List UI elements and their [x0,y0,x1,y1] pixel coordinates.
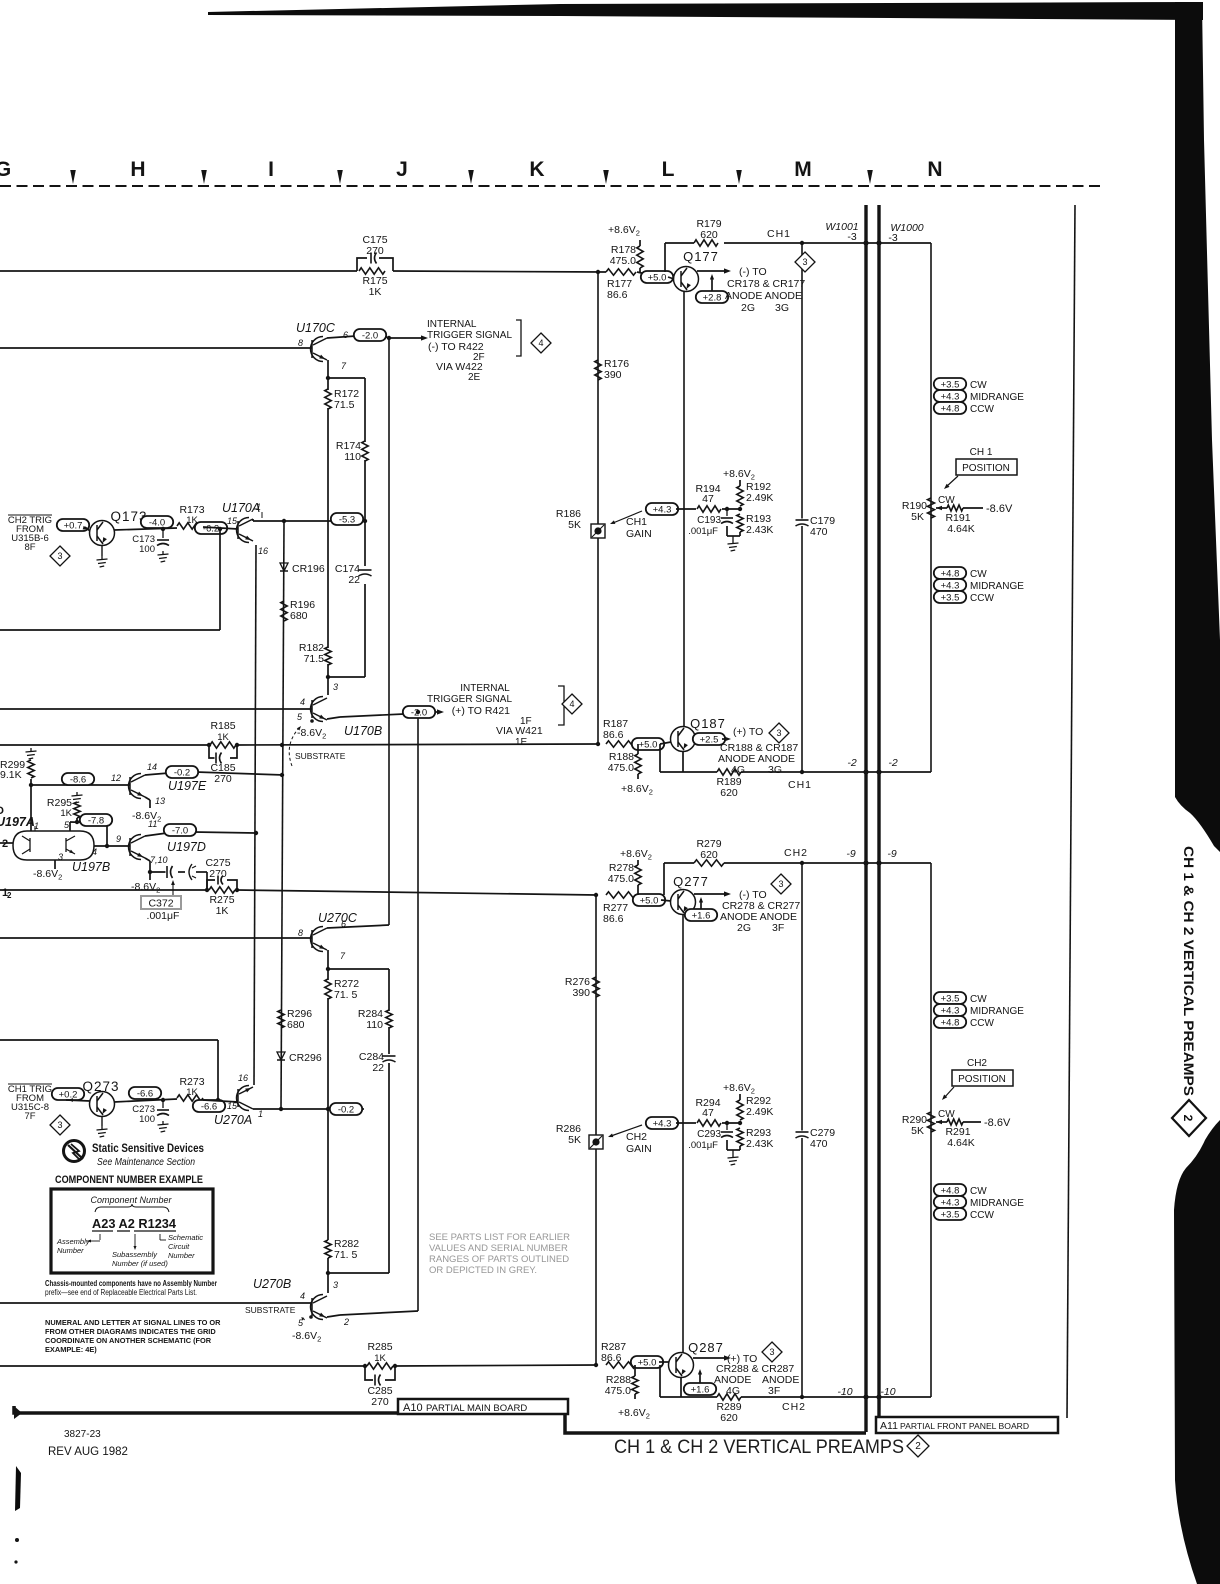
grid tick [70,170,76,184]
wire U270 ladder bottom rung [328,1272,389,1274]
pot R286 [589,1135,603,1149]
svg-text:110: 110 [366,1019,383,1031]
wire CH1 gnd row out [660,771,717,773]
svg-text:4: 4 [569,699,574,709]
svg-text:+4.3: +4.3 [941,1005,960,1016]
wire U170A collector [252,519,254,521]
svg-text:5K: 5K [568,1134,581,1146]
svg-text:71.5: 71.5 [304,653,325,665]
resistor R282 [325,1240,331,1258]
svg-text:4.64K: 4.64K [947,523,974,535]
node C273 tap [161,1098,165,1102]
svg-text:3G: 3G [775,302,789,314]
svg-text:620: 620 [700,849,718,861]
resistor R296 [278,1010,284,1028]
resistor R173 [177,523,203,529]
svg-text:A23 A2 R1234: A23 A2 R1234 [92,1216,177,1231]
diamond 3 CH2 trig [50,546,70,566]
svg-text:+5.0: +5.0 [640,895,659,906]
svg-text:ANODE ANODE: ANODE ANODE [718,753,795,765]
diamond 3 Q177 [795,252,815,272]
ground Q273 emitter [101,1117,103,1127]
wire Q277-Q287 emitter-collector link [682,914,684,1353]
svg-text:CH1: CH1 [788,779,812,791]
oval +4.3 ch2 [646,1117,678,1129]
svg-text:2.49K: 2.49K [746,492,773,504]
node C279 top [800,861,804,865]
svg-text:CR296: CR296 [289,1052,322,1064]
wire C275 link [150,871,167,873]
svg-text:INTERNAL: INTERNAL [460,683,510,694]
svg-text:CH 1: CH 1 [970,447,993,458]
svg-text:2: 2 [915,1441,921,1452]
U170C transistor [311,337,328,362]
svg-text:475.0: 475.0 [610,255,636,267]
wire R299 to U197E base [30,779,32,785]
svg-text:470: 470 [810,1138,828,1150]
node R177 left [596,270,600,274]
svg-text:Q277: Q277 [673,874,709,889]
svg-text:-8.6V2: -8.6V2 [33,868,62,882]
svg-text:3827-23: 3827-23 [64,1429,101,1440]
oval -8.6 [62,773,94,785]
wire pin2 U197A [0,842,13,844]
capacitor C175 [357,258,393,271]
node U170A box return [218,527,222,531]
svg-text:(-) TO: (-) TO [739,266,767,278]
wire C179 column [801,243,803,772]
node U270 ladder top [326,967,330,971]
svg-text:-2.0: -2.0 [362,330,378,341]
svg-text:15: 15 [227,516,238,526]
svg-text:-2: -2 [847,757,856,769]
resistor R277 [606,892,636,898]
node C179 top [800,241,804,245]
svg-text:REV AUG 1982: REV AUG 1982 [48,1446,128,1458]
svg-text:Assembly: Assembly [56,1237,91,1246]
resistor R191 [947,505,963,511]
capacitor C173 [162,529,164,538]
U270C transistor [311,927,328,952]
svg-text:Static Sensitive Devices: Static Sensitive Devices [92,1143,204,1155]
ground CH2 gain [728,1154,739,1165]
wire ch2 gain row [676,1122,696,1124]
svg-text:-0.2: -0.2 [174,767,190,778]
svg-text:CCW: CCW [970,593,994,604]
svg-text:+2.5: +2.5 [700,734,719,745]
wire Q177 base [668,277,674,279]
svg-text:(+) TO R421: (+) TO R421 [452,705,510,717]
svg-text:TRIGGER SIGNAL: TRIGGER SIGNAL [427,330,512,341]
svg-text:VIA W421: VIA W421 [496,725,543,737]
svg-text:1K: 1K [186,1087,198,1098]
wire CH1 position pot column [930,243,932,772]
wiper R286 to +4.3 [611,1125,642,1136]
resistor R278 [635,865,641,885]
svg-text:PARTIAL FRONT PANEL BOARD: PARTIAL FRONT PANEL BOARD [900,1421,1029,1431]
oval -7.0 [164,824,196,836]
svg-text:-8.6: -8.6 [70,774,86,785]
svg-text:TRIGGER SIGNAL: TRIGGER SIGNAL [427,694,512,705]
wire ladder bottom rung [328,676,365,678]
wire U270B base [0,1302,312,1304]
node C275 node [148,870,152,874]
resistor R172 [325,389,331,409]
wire Q177-Q187 emitter-collector link [683,291,685,727]
svg-text:COORDINATE ON ANOTHER SCHEMATI: COORDINATE ON ANOTHER SCHEMATIC (FOR [45,1336,212,1345]
pair transistors inside U197A/B [29,838,31,852]
svg-text:270: 270 [371,1396,389,1408]
wire U197D collector [145,833,167,836]
wire ladder right rail [364,378,366,442]
svg-text:2.43K: 2.43K [746,524,773,536]
wire U270C collector [327,925,389,928]
svg-text:-9: -9 [887,848,896,860]
svg-text:3F: 3F [768,1385,780,1397]
node U270 ladder bottom [326,1271,330,1275]
svg-text:2: 2 [2,838,8,850]
arrow +1.6 probe Q287 [699,1372,701,1383]
svg-text:2: 2 [1181,1115,1195,1122]
node plus trigger junction [416,710,420,714]
wire U170B base [0,708,312,710]
resistor R176 [595,360,601,380]
svg-text:475.0: 475.0 [608,762,634,774]
svg-text:100: 100 [139,544,155,555]
resistor R288 [632,1376,638,1394]
svg-text:-10: -10 [880,1386,895,1398]
svg-text:+5.0: +5.0 [639,739,658,750]
svg-text:13: 13 [155,796,165,806]
oval +4.3 ch1 [646,503,678,515]
svg-text:5K: 5K [911,1125,924,1137]
wire U170B emitter out [327,717,340,719]
wire R190 wiper [936,507,947,509]
svg-text:L: L [662,158,675,181]
svg-text:100: 100 [139,1114,155,1125]
svg-text:-0.2: -0.2 [338,1104,354,1115]
example brace [95,1204,169,1212]
wire Q177 collector riser [664,243,666,272]
svg-text:680: 680 [290,610,308,622]
diode CR196 [280,563,288,571]
node minus trigger junction [387,336,391,340]
svg-text:+1.6: +1.6 [692,910,711,921]
node W1001 crossing ch2b [863,1394,868,1399]
svg-text:Circuit: Circuit [168,1242,190,1251]
tab diamond 2 [1172,1100,1206,1136]
svg-text:Component Number: Component Number [90,1195,172,1205]
svg-text:Q273: Q273 [82,1079,119,1094]
wire CH1 plus input [0,744,209,746]
svg-text:R285: R285 [367,1341,392,1353]
wire CH2 plus input [0,1365,365,1367]
node R285 left [363,1364,367,1368]
svg-text:CW: CW [970,1186,987,1197]
svg-text:1: 1 [258,1109,263,1119]
svg-text:1K: 1K [217,732,229,743]
wire pin4 to U197D [94,845,130,847]
svg-text:3: 3 [57,551,62,561]
wire Q273 collector to R273 [114,1099,177,1102]
svg-text:7F: 7F [24,1111,35,1122]
resistor R175 [359,268,385,274]
transistor Q287 [669,1353,694,1378]
capacitor C372 grey box [141,896,181,909]
svg-text:4: 4 [92,847,97,857]
svg-text:470: 470 [810,526,828,538]
oval -0.2 U197E [166,766,198,778]
wire R293 C293 join [726,1140,728,1150]
example arrows [99,1234,101,1240]
svg-text:2: 2 [7,891,12,900]
diamond 3 Q287 [762,1342,782,1362]
svg-text:J: J [396,158,408,181]
svg-text:MIDRANGE: MIDRANGE [970,392,1024,403]
svg-text:3: 3 [802,257,807,267]
svg-text:4: 4 [300,697,305,707]
svg-text:4: 4 [538,338,543,348]
right tab upper black band [1175,2,1220,852]
svg-text:-9: -9 [846,848,855,860]
svg-text:71.5: 71.5 [334,399,355,411]
svg-text:71. 5: 71. 5 [334,1249,358,1261]
svg-text:2: 2 [343,1317,349,1327]
resistor R187 [606,741,636,747]
oval +2.5 [693,733,725,745]
svg-text:8: 8 [298,338,303,348]
svg-text:Subassembly: Subassembly [112,1250,158,1259]
svg-text:Q287: Q287 [688,1340,724,1355]
resistor R279 [694,860,724,866]
capacitor C275b loop [207,880,237,890]
arrow +1.6 probe [700,899,702,909]
wire Q273 base [66,1100,90,1101]
wire ch1 gain row [676,508,696,510]
svg-text:U197E: U197E [168,779,207,793]
wire CH2 output row [664,862,694,864]
resistor R192 [737,486,743,506]
resistor R178 [637,246,643,268]
arrow Q277 to CR anodes [694,893,727,895]
wire R292 top [739,1094,741,1100]
node CR296 bottom [279,1107,283,1111]
svg-text:16: 16 [258,546,268,556]
svg-text:U197A: U197A [0,815,35,829]
svg-text:A11: A11 [880,1420,898,1432]
wire Q187 emitter drop [682,752,684,773]
svg-text:COMPONENT NUMBER EXAMPLE: COMPONENT NUMBER EXAMPLE [55,1174,203,1186]
diamond 3 Q277 [771,874,791,894]
capacitor C293 [726,1123,728,1130]
resistor R289 [717,1394,741,1400]
oval +1.6 Q287 [684,1383,716,1395]
diamond 3 CH1 trig [50,1115,70,1135]
oval +5.0 Q187 [632,738,664,750]
svg-text:.001μF: .001μF [688,526,718,537]
arrow position ch2 [944,1087,954,1098]
resistor R193 [737,514,743,532]
transistor Q277 [671,890,696,915]
resistor R291 [947,1119,963,1125]
diamond 3 Q187 [769,723,789,743]
capacitor C185 loop [209,745,237,758]
svg-text:22: 22 [372,1062,384,1074]
svg-text:1K: 1K [216,905,229,917]
label CH2 upper presets [934,992,966,1004]
capacitor C284 [382,1055,397,1063]
svg-text:3: 3 [776,728,781,738]
wire Q287 emitter drop [680,1378,682,1398]
svg-text:Number: Number [57,1246,84,1255]
svg-text:110: 110 [344,451,361,463]
svg-text:CCW: CCW [970,404,994,415]
svg-text:+1.6: +1.6 [691,1384,710,1395]
svg-text:-6.6: -6.6 [201,1101,217,1112]
resistor R294 [697,1120,721,1126]
svg-text:-5.3: -5.3 [339,514,355,525]
svg-text:14: 14 [147,762,157,772]
node U270A return [216,1098,220,1102]
svg-text:+4.8: +4.8 [941,568,960,579]
A11 partial front panel board box [876,1417,1058,1433]
svg-text:CW: CW [938,495,955,506]
svg-text:4.64K: 4.64K [947,1137,974,1149]
wire CH1 output row [665,242,694,244]
svg-text:-3: -3 [847,231,856,243]
left edge scan dots [15,1538,19,1542]
wire box return vertical [219,529,221,630]
wire R188 taps [637,744,639,754]
svg-text:620: 620 [700,229,718,241]
A10 board border [14,1406,866,1433]
svg-text:Schematic: Schematic [168,1233,203,1242]
pot R186 [591,524,605,538]
A10 partial main board box [398,1399,568,1414]
oval +0.2 [52,1088,84,1100]
svg-text:86.6: 86.6 [603,913,624,925]
oval -2.0 U170C [354,329,386,341]
wire CR196 branch column [281,523,284,1109]
wire U270C emitter [327,950,329,969]
wire CH2 gnd row out [660,1396,717,1398]
wire U270 ladder right rail [388,969,390,1011]
svg-text:2.49K: 2.49K [746,1106,773,1118]
svg-text:CW: CW [938,1109,955,1120]
svg-text:-7.8: -7.8 [88,815,104,826]
wire U170C emitter [327,360,329,378]
svg-text:-6.6: -6.6 [137,1088,153,1099]
svg-text:A10: A10 [403,1402,423,1414]
svg-text:22: 22 [348,574,360,586]
svg-text:86.6: 86.6 [607,289,628,301]
oval -5.3 [331,513,363,525]
svg-text:POSITION: POSITION [962,463,1010,474]
svg-text:U197D: U197D [167,840,206,854]
svg-text:.001μF: .001μF [688,1140,718,1151]
oval -0.2 U270A [330,1103,362,1115]
svg-text:-2: -2 [888,757,897,769]
front panel board boundary line [1067,205,1075,1418]
svg-text:H: H [130,158,145,181]
capacitor C185 [215,752,222,765]
svg-text:N: N [927,158,942,181]
wire R178 top [639,240,641,246]
svg-text:(+) TO: (+) TO [733,726,763,738]
resistor R194 [697,506,721,512]
pot R290 [928,1112,935,1132]
node CH2 gain column join [594,1363,598,1367]
wire pin3 down [54,860,56,869]
svg-text:7,10: 7,10 [150,855,168,865]
svg-text:SEE PARTS LIST FOR EARLIER: SEE PARTS LIST FOR EARLIER [429,1232,570,1243]
grid dashed line [0,185,1100,187]
resistor R174 [362,441,368,461]
svg-text:1K: 1K [60,808,72,819]
svg-text:CH2: CH2 [782,1401,806,1413]
svg-text:CH2: CH2 [784,847,808,859]
svg-text:MIDRANGE: MIDRANGE [970,581,1024,592]
svg-text:+8.6V2: +8.6V2 [621,783,653,797]
U197D transistor [129,835,146,860]
wire Q187 base [660,742,671,744]
svg-text:9: 9 [116,834,121,844]
wire U270C base [0,937,312,939]
grid tick [867,170,873,184]
resistor R285 [367,1363,393,1369]
diode CR296 [277,1052,285,1060]
svg-text:1K: 1K [369,286,382,298]
arrow minus trigger [389,337,424,339]
node pin4 junction [105,844,109,848]
svg-text:+4.3: +4.3 [941,1197,960,1208]
svg-text:2G: 2G [741,302,755,314]
svg-text:270: 270 [214,773,232,785]
arrow position ch1 [946,476,958,487]
wiper R186 to +4.3 [613,511,642,523]
svg-text:CW: CW [970,569,987,580]
trimmer C275 curl [189,864,192,880]
resistor R179 [694,240,718,246]
wire Q277 base [661,900,671,901]
node ladder top rung [326,376,330,380]
svg-text:+5.0: +5.0 [648,272,667,283]
wire U270 ladder left rail [327,969,329,980]
svg-text:+8.6V2: +8.6V2 [723,1082,755,1096]
resistor R299 [28,760,34,778]
diamond 4 plus trigger [562,694,582,714]
svg-text:12: 12 [111,773,121,783]
svg-text:ANODE ANODE: ANODE ANODE [725,290,802,302]
svg-text:-4.0: -4.0 [149,517,165,528]
oval +2.8 [696,291,728,303]
box POSITION ch2 [952,1070,1013,1086]
ground R295 [72,792,83,803]
svg-text:3: 3 [333,682,338,692]
svg-text:71. 5: 71. 5 [334,989,358,1001]
svg-text:390: 390 [572,987,590,999]
svg-text:U170C: U170C [296,321,336,335]
svg-text:270: 270 [366,245,384,257]
svg-text:9.1K: 9.1K [0,769,22,781]
grid tick [736,170,742,184]
svg-text:620: 620 [720,1412,738,1424]
svg-text:-6.2: -6.2 [203,523,219,534]
resistor R295 [74,802,80,818]
svg-text:4: 4 [300,1291,305,1301]
U170A transistor [237,518,254,543]
svg-text:See Maintenance Section: See Maintenance Section [97,1157,195,1168]
